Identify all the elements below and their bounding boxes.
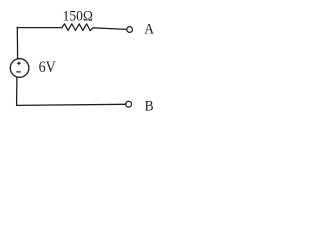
node B label <box>145 98 154 113</box>
node A label <box>144 21 154 36</box>
wire top-left horizontal <box>17 27 62 29</box>
label 6V <box>39 61 56 76</box>
voltage source V1 circle <box>10 59 29 78</box>
plus sign inside source <box>17 62 20 65</box>
wire left vertical top <box>16 27 18 59</box>
wire bottom horizontal <box>17 104 126 105</box>
label 150 ohm <box>63 8 93 23</box>
terminal A open circle <box>127 27 133 33</box>
wire left vertical bottom <box>16 77 18 105</box>
wire resistor to terminal A <box>93 28 127 30</box>
minus sign inside source <box>17 71 21 73</box>
terminal B open circle <box>126 101 132 107</box>
resistor R 150ohm zigzag <box>62 24 93 31</box>
